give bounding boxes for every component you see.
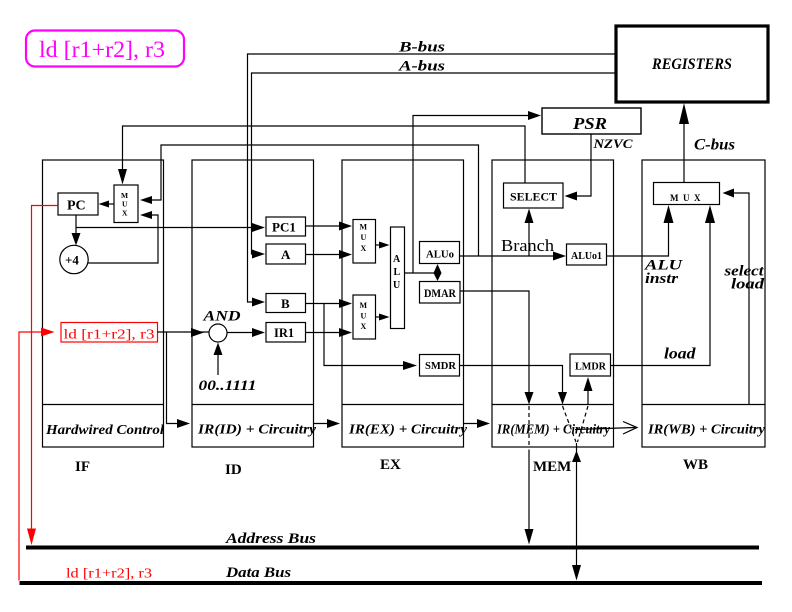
gate AND — [202, 309, 240, 343]
svg-text:U: U — [361, 233, 367, 242]
svg-text:U: U — [122, 200, 128, 209]
mux M4 (WB mux) — [654, 183, 720, 205]
svg-text:IR1: IR1 — [274, 326, 294, 340]
svg-text:PSR: PSR — [572, 114, 607, 133]
register PC1 — [266, 217, 306, 236]
svg-text:Branch: Branch — [501, 236, 555, 255]
svg-text:MEM: MEM — [533, 459, 571, 475]
wire constant to AND gate — [214, 343, 223, 376]
svg-text:Hardwired Control: Hardwired Control — [45, 422, 164, 437]
ALU — [391, 227, 405, 329]
wire memory data to Data Bus — [572, 443, 581, 581]
stage box WB — [642, 160, 766, 473]
svg-text:DMAR: DMAR — [424, 288, 457, 300]
svg-text:M: M — [360, 223, 368, 232]
stage box ID — [192, 160, 317, 478]
wire IR(ID) to IR(EX) — [314, 419, 341, 428]
svg-text:IF: IF — [75, 459, 90, 475]
svg-text:IR(EX) + Circuitry: IR(EX) + Circuitry — [348, 422, 468, 437]
wire Branch condition to SELECT — [525, 209, 534, 257]
svg-text:AND: AND — [202, 309, 240, 325]
svg-text:SMDR: SMDR — [425, 360, 457, 372]
wire IR(MEM) to IR(WB) — [575, 422, 637, 435]
svg-text:A: A — [281, 247, 291, 262]
svg-text:IR(ID) + Circuitry: IR(ID) + Circuitry — [197, 422, 317, 437]
svg-text:ALUo1: ALUo1 — [571, 251, 602, 262]
wire ALUo to ALUo1 (Branch node) — [460, 236, 567, 261]
svg-text:U: U — [361, 312, 367, 321]
wire IF instruction register to AND gate — [158, 328, 210, 337]
svg-text:EX: EX — [380, 457, 401, 473]
svg-text:00..1111: 00..1111 — [199, 378, 257, 394]
wire mux M3 to ALU — [376, 314, 390, 321]
Address Bus — [26, 531, 759, 550]
wire B to SMDR — [324, 304, 417, 371]
wire IR(EX) to IR(MEM) — [464, 419, 491, 428]
stage box MEM — [492, 160, 614, 475]
register PC — [58, 193, 98, 215]
svg-text:ld [r1+r2], r3: ld [r1+r2], r3 — [66, 566, 152, 581]
wire PC to Address Bus (red) — [27, 206, 58, 546]
register ALUo — [420, 242, 460, 264]
svg-text:+4: +4 — [65, 253, 79, 268]
wire PSR NZVC to SELECT — [565, 134, 592, 201]
wire SELECT to mux M1 top — [118, 126, 525, 185]
PSR register — [542, 108, 641, 134]
wire +4 to mux M1 lower input — [88, 211, 158, 263]
svg-text:L: L — [394, 267, 401, 278]
wire SMDR to memory — [459, 366, 576, 443]
wire ALU output node — [405, 264, 442, 281]
wire IR(WB) select to mux M4 — [723, 189, 750, 405]
register LMDR — [570, 354, 611, 376]
svg-text:NZVC: NZVC — [592, 137, 633, 151]
svg-text:IR(WB) + Circuitry: IR(WB) + Circuitry — [647, 422, 766, 437]
mux M3 (EX lower mux) — [353, 295, 376, 339]
stage box IF — [43, 160, 165, 475]
wire Data Bus to IF instruction register (red) — [19, 328, 55, 581]
wire LMDR to mux M4 (load path) — [611, 205, 716, 366]
register DMAR — [420, 282, 461, 304]
wire AND gate to IR1 — [227, 328, 265, 337]
mux M2 (EX upper mux) — [353, 220, 376, 264]
wire PC to PC1 — [76, 223, 265, 232]
svg-text:instr: instr — [645, 271, 678, 287]
svg-text:PC1: PC1 — [272, 220, 296, 235]
stage box EX — [342, 160, 468, 473]
branch SELECT logic — [504, 183, 564, 208]
svg-text:ALUo: ALUo — [426, 249, 454, 261]
REGISTERS block — [616, 26, 768, 102]
label ALU instr — [644, 258, 684, 288]
wire IR1 to mux M3 — [306, 328, 353, 337]
svg-text:ID: ID — [225, 462, 242, 478]
wire PC to +4 — [72, 215, 81, 246]
instruction label box (magenta) — [26, 31, 184, 67]
wire mux M1 to PC — [99, 201, 115, 208]
svg-text:Address Bus: Address Bus — [225, 531, 316, 547]
register ALUo1 — [567, 244, 607, 265]
svg-text:WB: WB — [683, 457, 708, 473]
svg-text:load: load — [731, 277, 765, 293]
svg-text:load: load — [664, 346, 697, 363]
IF instruction register (red) — [61, 323, 158, 343]
svg-text:Data Bus: Data Bus — [225, 565, 291, 581]
svg-text:A: A — [393, 254, 401, 265]
wire DMAR to Address Bus — [460, 291, 534, 545]
mux M1 (IF PC mux) — [114, 185, 138, 223]
register B — [266, 294, 306, 313]
wire C-bus: mux M4 to REGISTERS — [679, 103, 689, 183]
svg-text:REGISTERS: REGISTERS — [651, 56, 732, 73]
svg-text:ld [r1+r2], r3: ld [r1+r2], r3 — [64, 327, 155, 342]
register A — [266, 244, 306, 264]
wire ALU flags to PSR — [413, 111, 541, 273]
wire A to mux M2 — [306, 250, 353, 259]
svg-text:ld [r1+r2], r3: ld [r1+r2], r3 — [39, 37, 165, 62]
label select load — [723, 264, 764, 293]
wire B to mux M3 — [306, 299, 353, 308]
svg-text:U: U — [393, 280, 400, 291]
register SMDR — [420, 355, 460, 377]
wire B-bus: REGISTERS to register B — [248, 54, 617, 307]
svg-text:MUX: MUX — [670, 193, 705, 203]
svg-text:C-bus: C-bus — [694, 137, 735, 154]
register IR1 — [266, 323, 306, 343]
wire instruction to IR(ID) control section — [167, 332, 191, 428]
svg-text:X: X — [361, 244, 367, 253]
svg-text:X: X — [361, 322, 367, 331]
svg-text:B-bus: B-bus — [398, 40, 445, 56]
svg-text:PC: PC — [67, 199, 86, 214]
wire PC1 to mux M2 — [306, 222, 353, 231]
svg-text:SELECT: SELECT — [510, 192, 557, 204]
wire A-bus: REGISTERS to register A — [252, 73, 617, 259]
wire mux M2 to ALU — [376, 242, 390, 249]
wire ALU-result feedback to mux M1 upper input — [140, 145, 479, 256]
svg-text:LMDR: LMDR — [575, 362, 606, 373]
adder +4 — [60, 245, 88, 273]
wire ALUo1 to mux M4 (ALU instr path) — [607, 205, 674, 256]
svg-text:X: X — [122, 209, 128, 218]
svg-text:A-bus: A-bus — [398, 59, 445, 75]
svg-text:M: M — [360, 301, 368, 310]
svg-text:B: B — [281, 296, 290, 311]
wire memory to LMDR — [578, 377, 593, 442]
Data Bus — [20, 565, 763, 585]
